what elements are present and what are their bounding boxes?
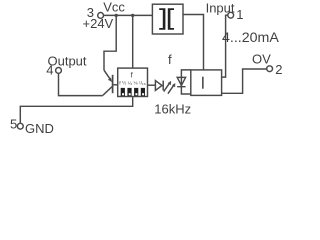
svg-text:4: 4 (46, 63, 53, 78)
DIP switch S2 (127, 88, 131, 96)
label divider ratios (119, 79, 146, 85)
pin number 2 (275, 62, 282, 77)
svg-text:4...20mA: 4...20mA (222, 30, 279, 46)
label f (optical signal) (168, 52, 172, 67)
wire divider supply (132, 15, 134, 68)
svg-text:+24V: +24V (83, 16, 114, 31)
svg-text:2: 2 (275, 62, 282, 77)
transformer T1 (152, 4, 183, 34)
junction J2 (131, 14, 134, 17)
pin number 4 (46, 63, 53, 78)
svg-text:5: 5 (10, 116, 17, 131)
svg-text:Vcc: Vcc (103, 0, 125, 14)
DIP switch S3 (134, 88, 138, 96)
wire ground rail (20, 97, 132, 124)
label 4...20mA (222, 30, 279, 46)
current source U2 (191, 70, 222, 96)
svg-text:f: f (168, 52, 172, 67)
transistor Q1 (103, 70, 118, 95)
wire Vcc rail (104, 14, 153, 16)
svg-text:16kHz: 16kHz (154, 101, 191, 116)
label +24V (83, 16, 114, 31)
pin number 1 (236, 7, 243, 22)
label f (inside divider) (131, 71, 134, 80)
label GND (25, 121, 54, 136)
wire emitter supply (104, 15, 116, 70)
frequency divider U1 (118, 68, 148, 96)
label Vcc (103, 0, 125, 14)
label Input (206, 0, 235, 15)
terminal 3 (Vcc) (98, 13, 104, 19)
terminal 2 (OV) (267, 66, 273, 72)
wire OV to terminal 2 (222, 69, 267, 93)
svg-text:1: 1 (236, 7, 243, 22)
wire input to current source (222, 15, 228, 77)
light arrow A1 (164, 81, 171, 92)
wire photodiode cathode (181, 87, 190, 94)
terminal 4 (Output) (56, 68, 62, 74)
junction J1 (115, 14, 118, 17)
terminal 1 (Input) (228, 12, 234, 18)
svg-text:GND: GND (25, 121, 54, 136)
light arrow A2 (168, 83, 175, 94)
wire photodiode anode (181, 70, 190, 78)
LED D1 (155, 81, 163, 91)
DIP switch S1 (121, 88, 125, 96)
photodiode D2 (177, 77, 185, 86)
wire collector to terminal 4 (59, 73, 103, 95)
label OV (252, 51, 271, 66)
label Output (48, 54, 87, 69)
DIP switch S4 (141, 88, 145, 96)
svg-text:f ½ ¼ ⅛ ¹/₁₆: f ½ ¼ ⅛ ¹/₁₆ (119, 79, 146, 85)
svg-text:OV: OV (252, 51, 271, 66)
label I (202, 77, 204, 89)
wire transformer secondary (183, 15, 204, 70)
pin number 5 (10, 116, 17, 131)
label 16kHz (154, 101, 191, 116)
terminal 5 (GND) (17, 123, 23, 129)
wire divider output to LED (148, 84, 156, 86)
pin number 3 (87, 5, 94, 20)
